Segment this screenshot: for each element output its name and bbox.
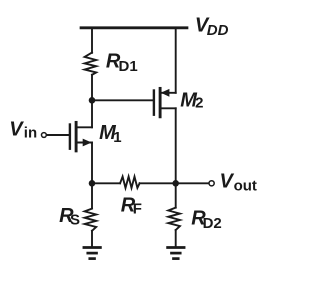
svg-text:D1: D1	[119, 58, 138, 75]
svg-text:V: V	[220, 170, 235, 192]
svg-text:in: in	[24, 125, 37, 142]
svg-text:1: 1	[113, 129, 121, 146]
svg-text:F: F	[133, 201, 142, 218]
svg-text:S: S	[70, 211, 80, 228]
svg-text:2: 2	[195, 95, 203, 112]
svg-text:D2: D2	[203, 215, 222, 232]
svg-text:DD: DD	[207, 22, 229, 39]
svg-text:out: out	[234, 177, 257, 194]
svg-text:V: V	[9, 118, 24, 140]
